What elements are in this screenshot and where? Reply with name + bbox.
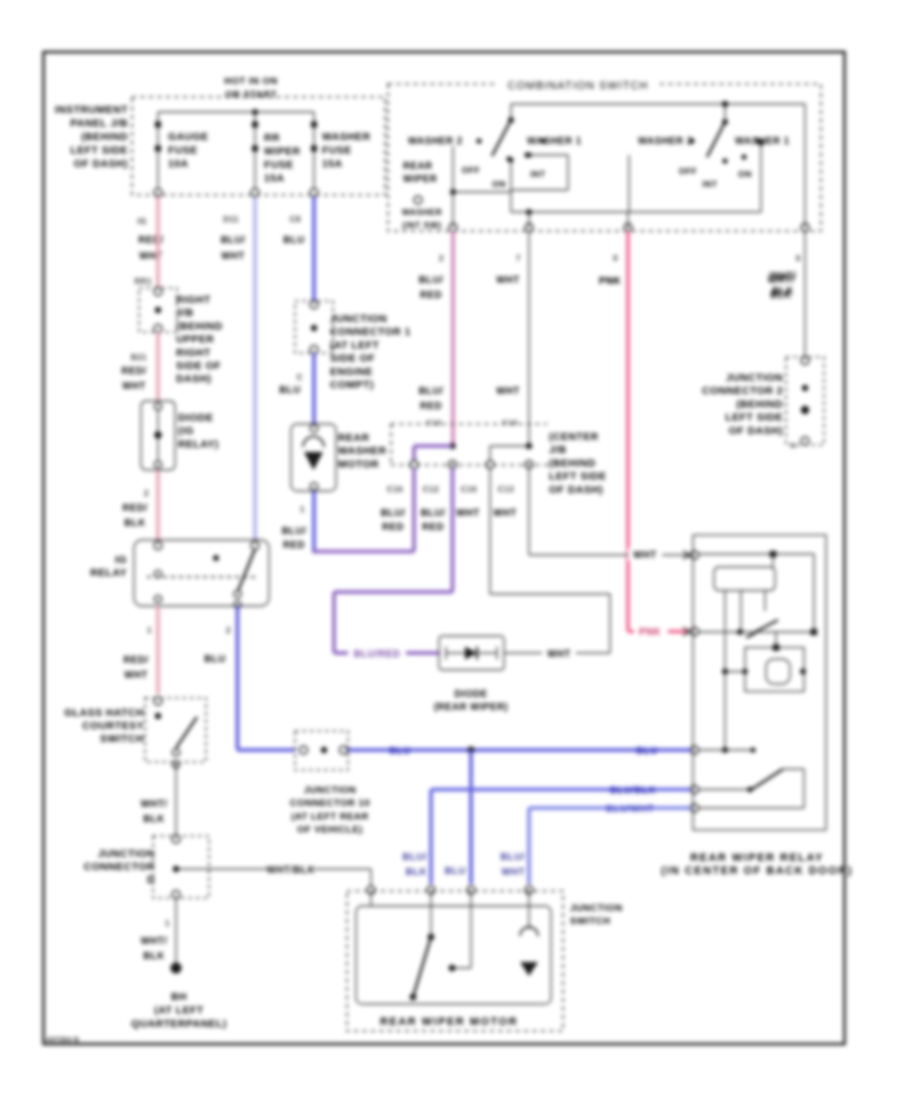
wire label BLU — [283, 235, 304, 246]
svg-text:GAUGE: GAUGE — [168, 132, 209, 143]
wire BLU/WHT relay to motor — [529, 808, 691, 884]
svg-text:WIPER: WIPER — [264, 147, 301, 158]
wire BLU to washer motor — [312, 353, 316, 425]
svg-text:CONNECTOR 10: CONNECTOR 10 — [290, 798, 370, 809]
ground label BH AT LEFT QUARTERPANEL — [131, 992, 227, 1030]
rear wiper pin — [414, 196, 422, 204]
svg-text:ENGINE: ENGINE — [330, 367, 373, 378]
wire WHT from switch — [528, 231, 530, 446]
wire label WHT under jb d — [493, 508, 517, 519]
svg-text:INT: INT — [530, 169, 546, 179]
svg-text:RIGHT: RIGHT — [176, 295, 211, 306]
wire label BLU/RED under jb a — [381, 508, 406, 533]
svg-text:1: 1 — [147, 626, 152, 635]
rear wiper motor dashed box — [347, 891, 563, 1031]
junction connector 10 — [295, 731, 348, 770]
pin label B21 — [131, 353, 147, 362]
svg-text:REAR: REAR — [338, 433, 369, 444]
diode IG relay box — [141, 401, 175, 470]
center J/B pins — [410, 461, 533, 469]
wire label BLU/WHT at motor — [500, 852, 525, 878]
svg-text:JUNCTION: JUNCTION — [570, 903, 623, 914]
svg-text:RELAY): RELAY) — [178, 439, 219, 450]
svg-text:BLU/: BLU/ — [419, 386, 444, 397]
svg-text:PNK: PNK — [639, 627, 661, 638]
power bus wire — [158, 111, 314, 113]
svg-text:COURTESY: COURTESY — [82, 721, 144, 732]
wire label RED/WHT — [138, 235, 163, 262]
svg-text:BLU: BLU — [283, 235, 304, 246]
label RR WIPER FUSE 15A — [264, 133, 301, 185]
svg-text:OFF: OFF — [462, 165, 481, 175]
wire RED to IG relay — [156, 470, 160, 540]
svg-text:BLK: BLK — [143, 814, 164, 825]
wire label RED/WHT lower — [123, 655, 148, 681]
left ON label — [492, 179, 506, 189]
svg-text:WASHER 2: WASHER 2 — [408, 136, 463, 147]
wire RED from gauge fuse — [156, 197, 160, 289]
relay entry pins — [691, 551, 699, 812]
svg-text:BLU/BLK: BLU/BLK — [610, 786, 656, 797]
wire BLU/RED from switch — [451, 231, 455, 446]
svg-text:BLU/: BLU/ — [221, 235, 246, 246]
svg-text:BLU/: BLU/ — [500, 852, 525, 863]
IG relay label — [90, 555, 127, 579]
left INT label — [530, 169, 546, 179]
wire label WHT/BLK ground — [141, 936, 168, 962]
svg-text:FUSE: FUSE — [322, 146, 352, 157]
svg-text:C10: C10 — [502, 418, 517, 427]
svg-text:WASHER: WASHER — [322, 132, 371, 143]
svg-text:C12: C12 — [426, 418, 441, 427]
svg-text:HOT IN ON: HOT IN ON — [224, 76, 278, 87]
svg-text:RR1: RR1 — [134, 277, 152, 286]
svg-text:WASHER: WASHER — [402, 207, 442, 217]
svg-text:WHT: WHT — [493, 508, 517, 519]
svg-text:WHT: WHT — [496, 275, 520, 286]
svg-text:A57204 B: A57204 B — [46, 1037, 79, 1044]
junction connector 1 — [295, 301, 333, 354]
svg-text:QUARTERPANEL): QUARTERPANEL) — [131, 1019, 227, 1030]
svg-text:CONNECTOR 2: CONNECTOR 2 — [702, 386, 783, 397]
RR WIPER fuse symbol — [251, 112, 259, 197]
svg-text:OFF: OFF — [679, 166, 698, 176]
wire WHT/BLK from switch — [804, 231, 806, 358]
relay switch arm — [746, 620, 778, 637]
svg-text:OF DASH): OF DASH) — [74, 159, 128, 170]
svg-text:DASH): DASH) — [176, 374, 211, 385]
svg-text:1: 1 — [165, 919, 170, 928]
wire WHT/BLK to wiper motor — [176, 869, 371, 886]
junction connector 2 — [786, 357, 824, 446]
svg-text:WASHER 2: WASHER 2 — [638, 136, 693, 147]
glass hatch courtesy switch label — [64, 708, 144, 745]
wire label PNK upper — [599, 276, 621, 287]
svg-text:UPPER: UPPER — [176, 335, 214, 346]
svg-text:WHT: WHT — [122, 381, 146, 392]
glass hatch courtesy switch — [145, 697, 206, 768]
wire label BLU/RED under jb b — [421, 508, 446, 533]
svg-text:WHT: WHT — [496, 386, 520, 397]
wire label WHT/BLK right col — [770, 271, 797, 297]
wire label BLU/RED at diode — [348, 646, 406, 660]
wire label BLU/RED mid — [419, 386, 444, 412]
ground point BH — [171, 963, 182, 974]
pin label 2 — [226, 626, 231, 635]
switch internal wiring right — [628, 155, 630, 212]
pin label 6 jc2 — [791, 441, 796, 450]
wire label WHT mid — [496, 386, 520, 397]
svg-text:BLU/: BLU/ — [381, 508, 406, 519]
jog wire BLU/RED to C16 — [414, 446, 452, 461]
junction node BLU — [467, 746, 474, 753]
wire RED below RR1 — [156, 332, 160, 401]
svg-text:BLU: BLU — [204, 654, 225, 665]
left switch arm — [492, 104, 514, 156]
rear washer motor — [291, 424, 336, 491]
right J/B label — [176, 295, 223, 385]
junction connector RR1 — [139, 288, 177, 333]
right OFF label — [679, 166, 698, 176]
center J/B dashed outline — [391, 424, 548, 465]
wire label BLU/BLK at motor — [402, 852, 427, 878]
svg-text:WHT/BLK: WHT/BLK — [267, 865, 315, 876]
wire label WHT below switch — [496, 275, 520, 286]
svg-text:2: 2 — [144, 489, 149, 498]
svg-text:REAR: REAR — [403, 161, 432, 172]
instrument panel J/B dashed box — [132, 97, 385, 195]
wire BLU from washer fuse — [312, 197, 316, 303]
svg-text:REAR WIPER RELAY: REAR WIPER RELAY — [690, 852, 824, 864]
wire label PNK at relay — [634, 625, 668, 638]
right INT label — [702, 179, 718, 189]
svg-text:(BEHIND: (BEHIND — [736, 399, 783, 410]
switch internal wiring left — [450, 146, 568, 227]
wire label WHT/BLK below switch — [768, 275, 795, 301]
label WASHER 1 right — [735, 136, 790, 147]
rear wiper motor pins — [367, 886, 533, 894]
svg-text:WIPER: WIPER — [403, 174, 437, 185]
relay timer box — [722, 632, 806, 692]
svg-text:BLK: BLK — [406, 867, 427, 878]
svg-text:WHT: WHT — [501, 867, 525, 878]
label WASHER FUSE 15A — [322, 132, 371, 170]
svg-text:RED: RED — [420, 290, 442, 301]
svg-text:RED/: RED/ — [138, 235, 163, 246]
label HOT IN ON OR START — [221, 73, 281, 101]
svg-text:7: 7 — [516, 254, 521, 263]
svg-text:(BEHIND: (BEHIND — [176, 321, 223, 332]
pin label C8 — [290, 215, 301, 224]
svg-text:LEFT SIDE: LEFT SIDE — [549, 472, 607, 483]
svg-text:ON: ON — [738, 169, 752, 179]
svg-text:(AT LEFT: (AT LEFT — [154, 1006, 204, 1017]
wire label WHT under jb c — [456, 508, 480, 519]
svg-text:(REAR WIPER): (REAR WIPER) — [434, 702, 508, 713]
diode label — [434, 689, 508, 713]
svg-text:RR: RR — [264, 133, 280, 144]
svg-text:GLASS HATCH: GLASS HATCH — [64, 708, 144, 719]
wire label BLU/RED washer — [282, 526, 307, 551]
svg-text:(IG: (IG — [178, 426, 194, 437]
junction node BLU/RED — [449, 443, 455, 449]
wire label RED/BLK — [122, 503, 147, 529]
label washer int sw — [402, 207, 442, 230]
pin label 7 wht — [516, 254, 521, 263]
label WASHER 1 left — [527, 136, 582, 147]
svg-text:RELAY: RELAY — [90, 568, 127, 579]
svg-text:BLK: BLK — [772, 286, 793, 297]
svg-text:(AT LEFT: (AT LEFT — [330, 340, 380, 351]
label WASHER 2 left — [408, 136, 482, 147]
svg-text:J/B: J/B — [176, 308, 194, 319]
wire label BLU/BLK on wire — [610, 786, 656, 797]
left contact dots — [506, 152, 529, 161]
svg-text:RED: RED — [420, 401, 442, 412]
svg-text:IG: IG — [115, 555, 127, 566]
svg-text:WHT/: WHT/ — [141, 799, 168, 810]
svg-text:BLU/: BLU/ — [419, 275, 444, 286]
pin label C jc1 — [297, 373, 303, 382]
pin label 6 wht/blk — [796, 254, 801, 263]
connector RR1 label — [134, 277, 152, 286]
svg-text:RED/: RED/ — [123, 655, 148, 666]
bus junction node — [252, 109, 258, 115]
combination switch pins — [449, 224, 809, 232]
wire BLU/RED from center jb to diode — [334, 468, 453, 653]
svg-text:CONNECTOR: CONNECTOR — [84, 862, 155, 873]
rear washer motor label — [338, 433, 387, 470]
wire RED below IG relay — [156, 606, 160, 694]
svg-text:(BEHIND: (BEHIND — [81, 132, 128, 143]
WASHER fuse symbol — [310, 112, 318, 197]
wire BLU horizontal to relay — [348, 748, 691, 752]
relay wire to blu pin — [698, 747, 756, 753]
wire BLU/BLK relay to motor — [431, 790, 691, 885]
svg-text:BLU/: BLU/ — [402, 852, 427, 863]
svg-text:SIDE OF: SIDE OF — [176, 361, 221, 372]
svg-text:OF DASH): OF DASH) — [729, 426, 783, 437]
wire BLU from IG relay — [238, 606, 296, 750]
wire label BLU/RED below switch — [419, 275, 444, 301]
wire label RED/WHT left — [121, 366, 146, 392]
wire label WHT at diode — [542, 647, 576, 660]
svg-text:PANEL J/B: PANEL J/B — [70, 119, 128, 130]
switch common bus line — [511, 104, 805, 227]
svg-text:FUSE: FUSE — [168, 146, 198, 157]
svg-text:(INT SW): (INT SW) — [402, 220, 441, 230]
relay top internal line — [698, 551, 814, 632]
svg-text:COMPT): COMPT) — [330, 380, 374, 391]
svg-text:(AT LEFT REAR: (AT LEFT REAR — [291, 811, 369, 822]
junction node WHT — [526, 443, 532, 449]
pin label IG — [138, 217, 147, 226]
svg-text:JUNCTION: JUNCTION — [98, 849, 155, 860]
wire label PNK below switch — [599, 276, 621, 287]
pin label C10 above jb — [502, 418, 517, 427]
wire WHT/BLK to ground — [175, 898, 177, 963]
svg-text:COMBINATION SWITCH: COMBINATION SWITCH — [508, 80, 649, 92]
svg-text:WHT: WHT — [221, 251, 245, 262]
svg-text:WHT: WHT — [633, 550, 657, 561]
diagram id text bottom-left — [46, 1037, 79, 1044]
relay coil — [714, 567, 775, 750]
wire label BLU on wire b — [636, 746, 657, 757]
combination switch dashed box — [388, 84, 821, 231]
junction connector D label — [84, 849, 155, 886]
rear wiper relay box — [693, 535, 826, 830]
svg-text:OR START: OR START — [225, 90, 277, 101]
svg-text:IG: IG — [138, 217, 147, 226]
junction connector 1 label — [330, 314, 411, 391]
svg-text:LEFT SIDE: LEFT SIDE — [725, 413, 783, 424]
pin label 1 ground — [165, 919, 170, 928]
svg-text:WASHER 1: WASHER 1 — [527, 136, 582, 147]
svg-text:D11: D11 — [223, 215, 239, 224]
svg-text:BLU: BLU — [389, 746, 410, 757]
svg-text:RED/: RED/ — [122, 503, 147, 514]
junction connector 2 label — [702, 373, 783, 437]
pin label C16 c — [461, 485, 477, 494]
svg-text:BLK: BLK — [143, 951, 164, 962]
svg-text:WHT: WHT — [547, 649, 571, 660]
svg-text:2: 2 — [226, 626, 231, 635]
svg-text:C16: C16 — [387, 485, 403, 494]
svg-text:SIDE OF: SIDE OF — [330, 354, 375, 365]
svg-text:RED: RED — [283, 540, 305, 551]
label DIODE (IG RELAY) — [178, 413, 219, 450]
svg-text:9: 9 — [613, 254, 618, 263]
svg-text:MOTOR: MOTOR — [338, 459, 379, 470]
svg-text:WHT: WHT — [124, 670, 148, 681]
right switch arm — [707, 101, 728, 157]
svg-text:ON: ON — [492, 179, 506, 189]
svg-text:LEFT SIDE: LEFT SIDE — [70, 146, 128, 157]
wire label WHT/BLK — [141, 799, 168, 825]
IG relay pins and contacts — [147, 542, 259, 608]
svg-text:(IN CENTER OF BACK DOOR): (IN CENTER OF BACK DOOR) — [661, 865, 853, 877]
svg-text:JUNCTION: JUNCTION — [330, 314, 387, 325]
diode rear wiper box — [439, 636, 504, 670]
svg-text:D: D — [147, 875, 155, 886]
wire WHT from center jb to relay — [529, 468, 688, 555]
wire label BLU/WHT on wire — [606, 804, 654, 815]
svg-text:CONNECTOR 1: CONNECTOR 1 — [330, 327, 411, 338]
svg-text:J/B: J/B — [549, 445, 567, 456]
wiper motor symbol — [520, 891, 538, 976]
label GAUGE FUSE 10A — [168, 132, 209, 170]
junction switch label — [570, 903, 623, 927]
svg-text:1: 1 — [300, 505, 305, 514]
wiper motor center contact — [449, 891, 471, 971]
svg-text:SWITCH: SWITCH — [570, 916, 610, 927]
svg-text:WHT/: WHT/ — [141, 936, 168, 947]
svg-text:RED: RED — [422, 522, 444, 533]
pin label 9 pnk — [613, 254, 618, 263]
pin label C16 a — [387, 485, 403, 494]
svg-text:(BEHIND: (BEHIND — [549, 458, 596, 469]
svg-text:BLU/WHT: BLU/WHT — [606, 804, 654, 815]
label REAR WIPER — [403, 161, 437, 185]
wire PNK from switch — [628, 231, 688, 632]
wire WHT/BLK from courtesy switch — [175, 762, 177, 836]
svg-text:FUSE: FUSE — [264, 160, 294, 171]
svg-text:WHT/: WHT/ — [770, 271, 797, 282]
svg-text:OF VEHICLE): OF VEHICLE) — [297, 825, 363, 836]
svg-text:JUNCTION: JUNCTION — [726, 373, 783, 384]
pin label C12 above jb — [426, 418, 441, 427]
svg-text:2: 2 — [439, 254, 444, 263]
connector chevron WHT relay — [683, 551, 690, 559]
svg-text:RIGHT: RIGHT — [176, 348, 211, 359]
wire label WHT at relay — [628, 548, 662, 561]
center J/B label — [549, 432, 607, 496]
svg-text:PNK: PNK — [599, 276, 621, 287]
wire label BLU — [204, 654, 225, 665]
left OFF label — [462, 165, 481, 175]
svg-text:B21: B21 — [131, 353, 147, 362]
right contact dots — [722, 154, 746, 163]
svg-text:WASHER: WASHER — [338, 446, 387, 457]
wire label WHT/BLK on wire — [267, 862, 315, 876]
wiper park switch arm — [410, 891, 435, 1000]
svg-text:6: 6 — [791, 441, 796, 450]
svg-text:6: 6 — [796, 254, 801, 263]
svg-text:BLK: BLK — [124, 518, 145, 529]
svg-text:C13: C13 — [498, 485, 514, 494]
svg-text:BLU: BLU — [636, 746, 657, 757]
svg-text:15A: 15A — [264, 174, 285, 185]
svg-text:10A: 10A — [168, 159, 189, 170]
wire label BLU/WHT — [221, 235, 246, 262]
wiper motor internal left pin wire — [370, 891, 372, 906]
pin label 2 — [144, 489, 149, 498]
rear wiper relay label — [661, 852, 853, 877]
svg-text:BLU: BLU — [279, 385, 300, 396]
svg-text:OF DASH): OF DASH) — [549, 485, 603, 496]
svg-text:DIODE: DIODE — [454, 689, 487, 700]
wire label BLU on wire a — [389, 746, 410, 757]
label WASHER 2 right — [638, 136, 695, 147]
svg-text:C12: C12 — [423, 485, 439, 494]
pin label 2 blu/red — [439, 254, 444, 263]
svg-text:BH: BH — [171, 992, 187, 1003]
svg-text:BLU/: BLU/ — [421, 508, 446, 519]
svg-text:SWITCH: SWITCH — [100, 734, 144, 745]
svg-text:C16: C16 — [461, 485, 477, 494]
svg-text:C8: C8 — [290, 215, 301, 224]
right ON label — [738, 169, 752, 179]
junction connector 10 label — [290, 785, 370, 836]
relay bottom switch — [698, 769, 804, 808]
svg-text:DIODE: DIODE — [178, 413, 213, 424]
pin label C12 b — [423, 485, 439, 494]
connector chevron PNK relay — [683, 628, 690, 636]
GAUGE fuse symbol — [154, 112, 162, 197]
svg-text:INSTRUMENT: INSTRUMENT — [55, 105, 128, 116]
wire WHT from diode to center jb — [490, 468, 610, 653]
svg-text:(CENTER: (CENTER — [549, 432, 599, 443]
relay mid internal line — [698, 629, 817, 636]
svg-text:BLU: BLU — [445, 866, 466, 877]
IG relay box — [134, 540, 269, 606]
svg-text:JUNCTION: JUNCTION — [304, 785, 357, 796]
pin label D11 — [223, 215, 239, 224]
wire label BLU jc1 — [279, 385, 300, 396]
svg-text:RED: RED — [382, 522, 404, 533]
pin label C13 d — [498, 485, 514, 494]
switch internal bottom rail — [511, 140, 764, 229]
